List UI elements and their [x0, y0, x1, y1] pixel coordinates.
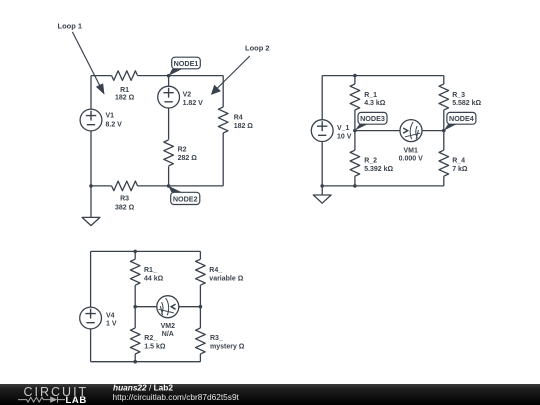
svg-text:8.2 V: 8.2 V — [106, 121, 123, 128]
svg-text:V1: V1 — [106, 113, 115, 120]
svg-text:Loop 1: Loop 1 — [58, 22, 83, 31]
svg-text:R1: R1 — [120, 87, 129, 94]
svg-text:V4: V4 — [106, 313, 115, 320]
svg-text:5.582 kΩ: 5.582 kΩ — [452, 100, 481, 107]
svg-text:R3: R3 — [120, 195, 129, 202]
svg-text:4.3 kΩ: 4.3 kΩ — [364, 100, 386, 107]
svg-text:variable Ω: variable Ω — [209, 275, 243, 282]
svg-text:R1_: R1_ — [144, 267, 157, 274]
svg-text:7 kΩ: 7 kΩ — [452, 166, 468, 173]
svg-text:huans22 / Lab2: huans22 / Lab2 — [113, 382, 173, 392]
svg-text:1 V: 1 V — [106, 321, 117, 328]
svg-text:44 kΩ: 44 kΩ — [144, 275, 164, 282]
svg-text:NODE4: NODE4 — [449, 114, 474, 123]
svg-text:182 Ω: 182 Ω — [234, 123, 254, 130]
svg-text:R_3: R_3 — [452, 92, 465, 99]
svg-text:R2: R2 — [178, 146, 187, 153]
svg-text:V2: V2 — [183, 92, 192, 99]
svg-text:1.82 V: 1.82 V — [183, 100, 204, 107]
svg-text:R2_: R2_ — [144, 335, 157, 342]
svg-text:382 Ω: 382 Ω — [115, 205, 135, 212]
svg-text:NODE3: NODE3 — [360, 114, 385, 123]
svg-text:R3_: R3_ — [210, 335, 223, 342]
svg-text:R_4: R_4 — [452, 157, 465, 164]
svg-text:R4: R4 — [234, 114, 243, 121]
svg-text:http://circuitlab.com/cbr87d62: http://circuitlab.com/cbr87d62t5s9t — [113, 392, 240, 402]
svg-text:VM1: VM1 — [403, 147, 418, 154]
svg-text:LAB: LAB — [66, 395, 87, 405]
svg-text:NODE1: NODE1 — [174, 59, 199, 68]
svg-text:5.392 kΩ: 5.392 kΩ — [364, 166, 393, 173]
svg-text:V_1: V_1 — [337, 125, 350, 132]
svg-text:1.5 kΩ: 1.5 kΩ — [144, 343, 166, 350]
svg-text:R_1: R_1 — [364, 92, 377, 99]
svg-text:10 V: 10 V — [337, 133, 352, 140]
svg-text:R4_: R4_ — [209, 267, 222, 274]
svg-text:N/A: N/A — [162, 331, 174, 338]
svg-text:182 Ω: 182 Ω — [115, 94, 135, 101]
svg-text:0.000 V: 0.000 V — [399, 156, 423, 163]
svg-text:VM2: VM2 — [161, 323, 176, 330]
svg-text:R_2: R_2 — [364, 157, 377, 164]
svg-text:mystery Ω: mystery Ω — [210, 343, 245, 350]
svg-text:282 Ω: 282 Ω — [178, 155, 198, 162]
svg-text:Loop 2: Loop 2 — [245, 44, 270, 53]
svg-text:NODE2: NODE2 — [173, 194, 198, 203]
